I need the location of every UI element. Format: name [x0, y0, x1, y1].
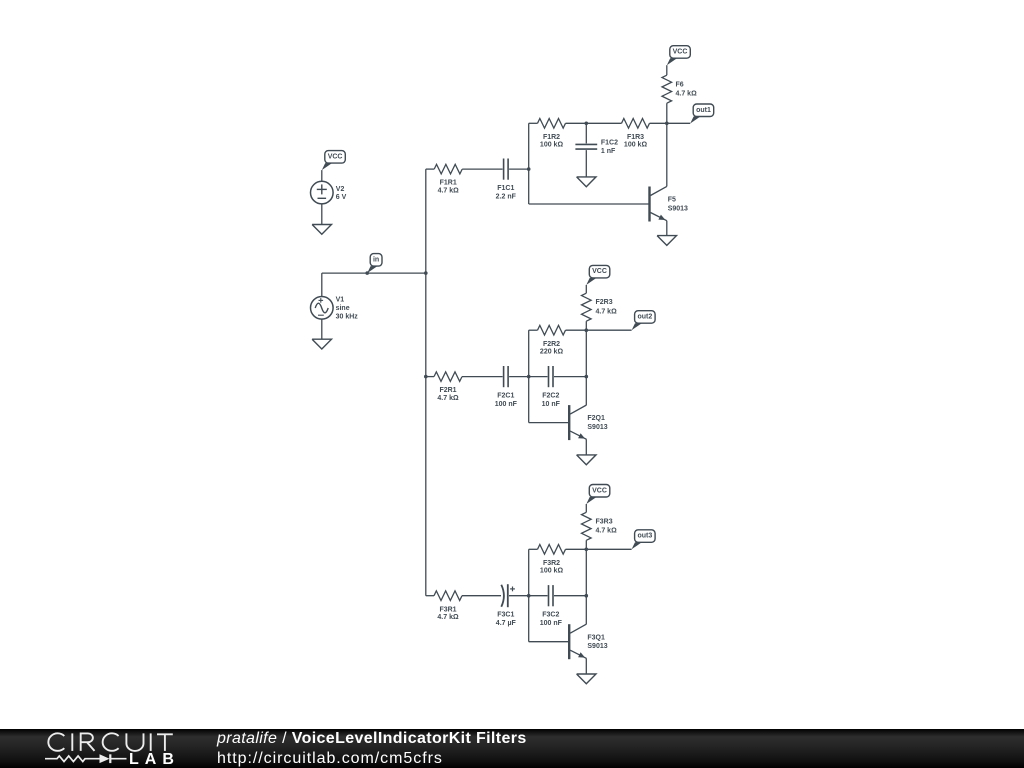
- svg-text:F1C1: F1C1: [497, 185, 514, 192]
- svg-text:F5: F5: [668, 197, 676, 204]
- svg-text:V1: V1: [336, 297, 345, 304]
- svg-text:S9013: S9013: [587, 643, 607, 650]
- svg-text:F6: F6: [676, 81, 684, 88]
- svg-text:VCC: VCC: [673, 49, 688, 56]
- svg-text:4.7 kΩ: 4.7 kΩ: [676, 91, 698, 98]
- svg-text:220 kΩ: 220 kΩ: [540, 348, 564, 355]
- svg-text:F3R1: F3R1: [439, 606, 456, 613]
- svg-text:VCC: VCC: [328, 153, 343, 160]
- svg-text:in: in: [373, 256, 379, 263]
- svg-text:1 nF: 1 nF: [601, 148, 616, 155]
- svg-text:V2: V2: [336, 186, 345, 193]
- svg-text:F2R2: F2R2: [543, 341, 560, 348]
- svg-text:F3R3: F3R3: [596, 518, 613, 525]
- svg-text:100 kΩ: 100 kΩ: [624, 142, 648, 149]
- svg-text:4.7 kΩ: 4.7 kΩ: [596, 309, 618, 316]
- svg-text:F3Q1: F3Q1: [587, 634, 605, 641]
- svg-text:out2: out2: [638, 314, 653, 321]
- svg-text:out1: out1: [696, 107, 711, 114]
- svg-text:F2R1: F2R1: [439, 387, 456, 394]
- svg-text:sine: sine: [336, 305, 350, 312]
- svg-text:F3C1: F3C1: [497, 612, 514, 619]
- svg-text:VCC: VCC: [592, 487, 607, 494]
- svg-text:30 kHz: 30 kHz: [336, 313, 359, 320]
- svg-text:100 nF: 100 nF: [495, 401, 518, 408]
- svg-text:F2R3: F2R3: [596, 299, 613, 306]
- svg-text:F1R2: F1R2: [543, 134, 560, 141]
- svg-text:4.7 µF: 4.7 µF: [496, 620, 517, 627]
- svg-text:F2C1: F2C1: [497, 393, 514, 400]
- svg-text:10 nF: 10 nF: [542, 401, 561, 408]
- svg-text:out3: out3: [638, 533, 653, 540]
- svg-text:4.7 kΩ: 4.7 kΩ: [437, 614, 459, 621]
- svg-text:100 kΩ: 100 kΩ: [540, 568, 564, 575]
- svg-text:100 kΩ: 100 kΩ: [540, 142, 564, 149]
- svg-text:2.2 nF: 2.2 nF: [496, 193, 517, 200]
- svg-text:S9013: S9013: [587, 424, 607, 431]
- svg-text:F1C2: F1C2: [601, 140, 618, 147]
- svg-text:F2C2: F2C2: [542, 393, 559, 400]
- svg-text:F3C2: F3C2: [542, 612, 559, 619]
- svg-text:4.7 kΩ: 4.7 kΩ: [438, 187, 460, 194]
- svg-text:4.7 kΩ: 4.7 kΩ: [437, 395, 459, 402]
- svg-text:100 nF: 100 nF: [540, 620, 563, 627]
- svg-text:F1R3: F1R3: [627, 134, 644, 141]
- svg-text:4.7 kΩ: 4.7 kΩ: [596, 528, 618, 535]
- svg-text:6 V: 6 V: [336, 194, 347, 201]
- svg-text:VCC: VCC: [592, 268, 607, 275]
- svg-text:F1R1: F1R1: [440, 180, 457, 187]
- svg-text:F2Q1: F2Q1: [587, 415, 605, 422]
- svg-text:S9013: S9013: [668, 206, 688, 213]
- svg-text:F3R2: F3R2: [543, 560, 560, 567]
